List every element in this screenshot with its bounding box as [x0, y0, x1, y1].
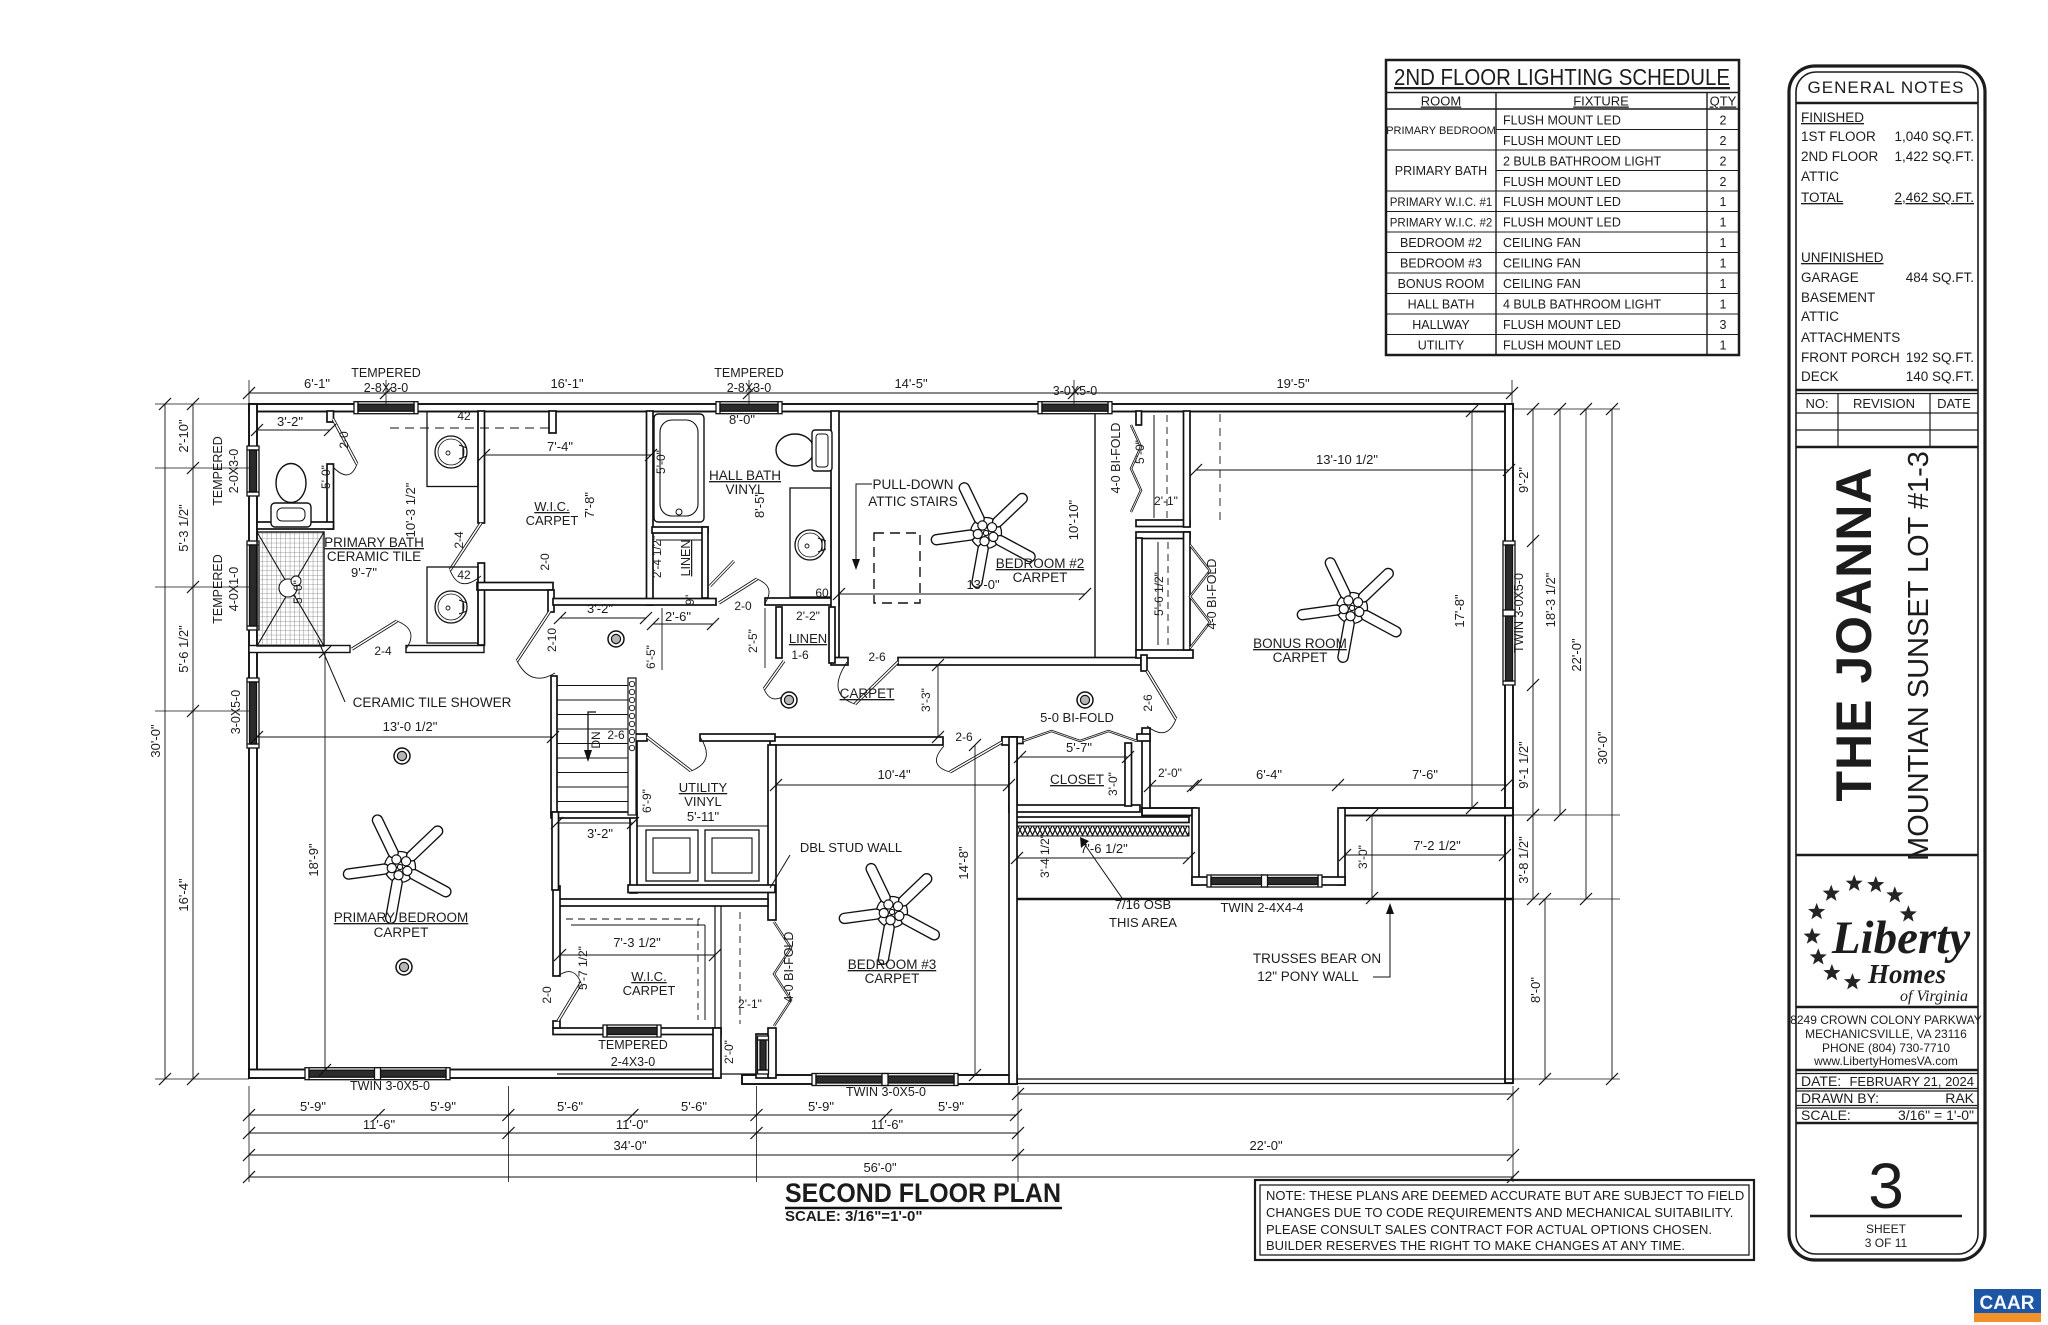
dim line 2-0 recess [1150, 785, 1193, 787]
svg-text:1ST FLOOR: 1ST FLOOR [1801, 129, 1876, 144]
svg-text:FLUSH MOUNT LED: FLUSH MOUNT LED [1503, 339, 1621, 353]
svg-text:3-0X5-0: 3-0X5-0 [229, 690, 243, 735]
svg-text:TRUSSES BEAR ON: TRUSSES BEAR ON [1253, 951, 1381, 966]
bonus room bottom wall west [1142, 808, 1196, 816]
svg-text:UTILITY: UTILITY [1418, 339, 1465, 353]
svg-text:2-10: 2-10 [545, 628, 559, 652]
toilet room bottom wall [257, 522, 334, 529]
svg-text:MOUNTIAN SUNSET LOT #1-3: MOUNTIAN SUNSET LOT #1-3 [1903, 451, 1935, 861]
bedroom3 east wall [1009, 737, 1017, 1084]
svg-text:10'-3 1/2": 10'-3 1/2" [403, 482, 418, 537]
svg-text:FLUSH MOUNT LED: FLUSH MOUNT LED [1503, 175, 1621, 189]
svg-text:TEMPERED: TEMPERED [598, 1038, 667, 1052]
flush light hall 3 [1077, 692, 1093, 708]
svg-text:22'-0": 22'-0" [1569, 638, 1584, 672]
svg-text:FINISHED: FINISHED [1801, 110, 1864, 125]
svg-text:8'-0": 8'-0" [1528, 977, 1543, 1003]
svg-text:3'-2": 3'-2" [587, 601, 613, 616]
dim line 13-10half [1196, 469, 1509, 471]
svg-text:BONUS ROOM: BONUS ROOM [1398, 277, 1485, 291]
window twin 3-0x5-0 bedroom3 [812, 1074, 958, 1086]
stair treads [557, 685, 628, 687]
date rows [1796, 1069, 1978, 1071]
svg-text:2-6: 2-6 [607, 728, 625, 742]
svg-text:FLUSH MOUNT LED: FLUSH MOUNT LED [1503, 216, 1621, 230]
svg-text:CARPET: CARPET [840, 686, 895, 701]
svg-text:5'-0": 5'-0" [291, 580, 305, 604]
svg-text:DATE: DATE [1937, 396, 1971, 411]
svg-text:5'-6": 5'-6" [681, 1099, 707, 1114]
window tempered 2-8x3-0 hallbath [716, 402, 782, 414]
svg-text:2'-0": 2'-0" [1158, 766, 1182, 780]
svg-text:6'-5": 6'-5" [644, 645, 658, 669]
svg-text:2-0: 2-0 [734, 599, 752, 613]
svg-text:2-0: 2-0 [337, 431, 351, 449]
svg-text:TOTAL: TOTAL [1801, 190, 1844, 205]
stair west wall [551, 676, 557, 815]
svg-text:5'-9": 5'-9" [430, 1099, 456, 1114]
svg-text:3'-2": 3'-2" [587, 826, 613, 841]
dim line 18-9 [324, 652, 326, 1070]
svg-text:3'-8 1/2": 3'-8 1/2" [1516, 836, 1531, 884]
svg-text:2'-6": 2'-6" [665, 609, 691, 624]
dim line 7-2half [1345, 854, 1505, 856]
bedroom2 south wall west stub [831, 658, 848, 666]
dim line 3-3 [937, 665, 939, 737]
left dimension chain [192, 404, 194, 1079]
svg-text:1: 1 [1720, 236, 1727, 250]
bonus closet bifold 4-0 [1190, 545, 1210, 648]
svg-text:FLUSH MOUNT LED: FLUSH MOUNT LED [1503, 114, 1621, 128]
right chain 9-2 [1532, 409, 1534, 815]
svg-text:ATTACHMENTS: ATTACHMENTS [1801, 330, 1900, 345]
wic2 shelf dashed top [566, 918, 700, 920]
wic south wall [553, 599, 716, 606]
svg-text:FLUSH MOUNT LED: FLUSH MOUNT LED [1503, 134, 1621, 148]
vanity wall return [548, 590, 554, 612]
right chain 8-0 [1544, 899, 1546, 1079]
bottom row4 chain [249, 1176, 1513, 1178]
svg-text:PRIMARY BATH: PRIMARY BATH [324, 535, 424, 550]
suite entry door 2-10 [517, 611, 555, 678]
svg-text:4 BULB BATHROOM LIGHT: 4 BULB BATHROOM LIGHT [1503, 298, 1661, 312]
linen closet 2 left wall [776, 607, 782, 658]
svg-text:DECK: DECK [1801, 369, 1839, 384]
wic east wall [647, 411, 654, 605]
table frame [1386, 60, 1739, 355]
svg-text:5'-7": 5'-7" [1066, 740, 1092, 755]
svg-text:1,422 SQ.FT.: 1,422 SQ.FT. [1894, 149, 1974, 164]
pony wall line [1017, 898, 1513, 900]
svg-text:NOTE: THESE PLANS ARE DEEMED A: NOTE: THESE PLANS ARE DEEMED ACCURATE BU… [1266, 1188, 1744, 1203]
svg-text:CEILING FAN: CEILING FAN [1503, 257, 1581, 271]
svg-text:5'-11": 5'-11" [687, 809, 720, 824]
svg-text:6'-9": 6'-9" [640, 789, 654, 813]
ceramic tile shower pan [257, 532, 324, 646]
dim line 7-4 [484, 454, 651, 456]
svg-text:RAK: RAK [1945, 1090, 1974, 1106]
bonus closet top wall [1136, 532, 1190, 539]
hall closet bottom wall [1009, 805, 1140, 812]
svg-text:VINYL: VINYL [725, 482, 765, 497]
svg-text:2-0X3-0: 2-0X3-0 [227, 449, 241, 494]
attic access dashed line [1219, 414, 1221, 520]
wic2 shelf solid right [704, 925, 706, 1020]
bay window left wall [1192, 808, 1199, 885]
dim line 6-5 vestibule [661, 608, 663, 670]
lower roof edge line a [1017, 1078, 1513, 1080]
svg-text:1: 1 [1720, 257, 1727, 271]
svg-text:SCALE: 3/16"=1'-0": SCALE: 3/16"=1'-0" [785, 1208, 922, 1225]
bedroom3 north wall east stub [1002, 737, 1017, 745]
right 18-3 [1559, 409, 1561, 815]
right chain 3-8 [1532, 815, 1534, 899]
bonus west wall lower [1142, 728, 1150, 808]
svg-text:SECOND FLOOR PLAN: SECOND FLOOR PLAN [785, 1178, 1061, 1208]
bottom row2 chain [249, 1132, 1018, 1134]
svg-text:5'-9": 5'-9" [808, 1099, 834, 1114]
column lines [1495, 93, 1497, 356]
svg-text:CARPET: CARPET [1013, 570, 1068, 585]
general notes header underline [1796, 102, 1978, 104]
svg-text:BASEMENT: BASEMENT [1801, 290, 1875, 305]
dim line 14-8 [974, 745, 976, 1075]
header dashed line wic [390, 427, 549, 429]
toilet 1 primary bath [271, 464, 311, 528]
dim line 3-2 toilet [257, 429, 330, 431]
svg-text:34'-0": 34'-0" [613, 1138, 647, 1153]
svg-text:2'-4 1/2": 2'-4 1/2" [652, 536, 664, 578]
svg-text:DRAWN BY:: DRAWN BY: [1801, 1090, 1879, 1106]
svg-text:2: 2 [1720, 155, 1727, 169]
bedroom2 closet shelf line [1153, 415, 1155, 518]
svg-text:3'-3": 3'-3" [919, 688, 933, 712]
svg-text:LINEN: LINEN [679, 540, 693, 577]
svg-text:5'-7 1/2": 5'-7 1/2" [576, 946, 590, 990]
ceiling fan primary bedroom [349, 820, 446, 918]
bottom wall - bedroom 3 [742, 1075, 1017, 1084]
flush light hall 1 [608, 631, 624, 647]
svg-text:TWIN 3-0X5-0: TWIN 3-0X5-0 [846, 1085, 926, 1099]
bonus west wall cap [1137, 734, 1150, 741]
wall segment with 2-0 window [756, 1034, 770, 1078]
svg-text:1: 1 [1720, 216, 1727, 230]
svg-text:HALL BATH: HALL BATH [1408, 298, 1475, 312]
svg-text:17'-8": 17'-8" [1452, 594, 1467, 628]
svg-text:SCALE:: SCALE: [1801, 1107, 1851, 1123]
svg-text:BEDROOM #2: BEDROOM #2 [1400, 236, 1482, 250]
window tempered 2-8x3-0 left [354, 402, 418, 414]
dim line 10-4 [776, 784, 1009, 786]
dim line 13-0 bedroom2 [839, 593, 1085, 595]
dim line 3-2 stairs [557, 822, 633, 824]
dim line 5-7 [1020, 756, 1128, 758]
linen closet 2 right wall [829, 607, 835, 663]
svg-text:PLEASE CONSULT SALES CONTRACT: PLEASE CONSULT SALES CONTRACT FOR ACTUAL… [1266, 1222, 1712, 1237]
svg-text:FLUSH MOUNT LED: FLUSH MOUNT LED [1503, 195, 1621, 209]
svg-text:14'-5": 14'-5" [894, 376, 928, 391]
bonus room door 2-6 [1147, 671, 1176, 733]
toilet room right wall lower [327, 464, 334, 529]
svg-text:TEMPERED: TEMPERED [211, 436, 225, 505]
svg-text:140 SQ.FT.: 140 SQ.FT. [1906, 369, 1974, 384]
bedroom3 closet wall line [714, 906, 716, 1028]
svg-text:2-4: 2-4 [452, 531, 466, 549]
svg-text:2ND FLOOR LIGHTING SCHEDULE: 2ND FLOOR LIGHTING SCHEDULE [1394, 64, 1730, 90]
shower leader [318, 640, 345, 702]
bath-wic door 2-4 [450, 523, 481, 584]
svg-text:4-0 BI-FOLD: 4-0 BI-FOLD [782, 932, 796, 1003]
svg-text:W.I.C.: W.I.C. [631, 969, 666, 984]
svg-text:8249 CROWN COLONY PARKWAY: 8249 CROWN COLONY PARKWAY [1790, 1013, 1982, 1027]
ceiling fan bedroom2 [936, 488, 1030, 582]
svg-text:30'-0": 30'-0" [1595, 731, 1610, 765]
svg-text:CARPET: CARPET [526, 513, 579, 528]
bonus closet bottom wall [1136, 650, 1193, 658]
bay window bottom wall [1192, 877, 1345, 885]
svg-text:3: 3 [1868, 1150, 1904, 1222]
bonus closet rod dashed [1167, 542, 1169, 645]
bath south wall east [406, 646, 484, 653]
svg-text:484 SQ.FT.: 484 SQ.FT. [1906, 270, 1974, 285]
flush light hall 2 [781, 692, 797, 708]
svg-text:9": 9" [685, 595, 697, 605]
svg-text:2-4: 2-4 [374, 644, 392, 658]
svg-text:60: 60 [815, 586, 829, 600]
svg-text:2 BULB BATHROOM LIGHT: 2 BULB BATHROOM LIGHT [1503, 155, 1661, 169]
bonus closet shelf line [1157, 542, 1159, 645]
primary bedroom door 2-0 [558, 972, 581, 1021]
svg-text:18'-9": 18'-9" [306, 843, 321, 877]
dim line 2-5 [764, 608, 766, 668]
wall notch below closet [1141, 655, 1147, 671]
bonus closet west wall [1136, 538, 1142, 650]
top ext lines [248, 380, 250, 404]
svg-text:CAAR: CAAR [1980, 1293, 2035, 1314]
svg-text:VINYL: VINYL [684, 794, 722, 809]
svg-text:CERAMIC TILE: CERAMIC TILE [327, 549, 421, 564]
bedroom3 closet wall line b [720, 906, 722, 1028]
linen closet 2 door 1-6 [764, 661, 784, 699]
bottom row1 chain [249, 1114, 1016, 1116]
svg-text:3'-2": 3'-2" [277, 414, 303, 429]
svg-text:5-0 BI-FOLD: 5-0 BI-FOLD [1040, 710, 1114, 725]
svg-text:2-6: 2-6 [1141, 694, 1155, 712]
utility shelf line [637, 825, 768, 827]
bath south wall west [249, 646, 350, 653]
utility west wall [630, 734, 637, 893]
svg-text:7'-6": 7'-6" [1412, 767, 1438, 782]
svg-text:ATTIC: ATTIC [1801, 169, 1839, 184]
svg-text:7'-2 1/2": 7'-2 1/2" [1413, 838, 1461, 853]
bedroom2 west wall [831, 411, 839, 661]
svg-text:6'-1": 6'-1" [304, 376, 330, 391]
svg-text:9'-1 1/2": 9'-1 1/2" [1516, 741, 1531, 789]
bedroom2 closet bifold 4-0 [1131, 425, 1141, 512]
DN arrow [588, 712, 596, 758]
closet east wall upper [1184, 411, 1191, 527]
svg-text:1: 1 [1720, 339, 1727, 353]
lower roof edge line b [1017, 1083, 1513, 1085]
bedroom2 closet top stub [1136, 411, 1142, 425]
svg-text:DBL STUD WALL: DBL STUD WALL [800, 840, 902, 855]
hall bath tub [654, 414, 704, 522]
window 2-0 at jog [758, 1036, 769, 1074]
top dimension chain [249, 392, 1512, 394]
utility door 2-6 [647, 737, 706, 771]
revision table [1796, 412, 1978, 414]
hall west wall below stairs [552, 812, 559, 890]
dim line below bonus [1196, 784, 1507, 786]
bonus room bottom wall east [1341, 808, 1513, 816]
svg-text:NO:: NO: [1805, 396, 1828, 411]
bedroom3 closet bifold 4-0 [774, 922, 791, 1026]
window tempered 2-4x3-0 wic2 [603, 1025, 661, 1037]
svg-text:1-6: 1-6 [791, 648, 809, 662]
svg-text:11'-6": 11'-6" [871, 1117, 904, 1132]
svg-text:16'-1": 16'-1" [550, 376, 584, 391]
svg-text:2'-2": 2'-2" [796, 609, 820, 623]
right 30-0 [1611, 409, 1613, 1079]
bedroom2 door 2-6 [838, 662, 898, 704]
wic2 shelf solid top [571, 924, 705, 926]
svg-text:REVISION: REVISION [1853, 396, 1915, 411]
dim extension line right section [1018, 1093, 1513, 1095]
svg-text:13'-10 1/2": 13'-10 1/2" [1316, 452, 1378, 467]
linen1 door leaf [710, 561, 734, 586]
svg-text:11'-6": 11'-6" [363, 1117, 396, 1132]
svg-text:UNFINISHED: UNFINISHED [1801, 250, 1884, 265]
svg-text:SHEET: SHEET [1866, 1222, 1907, 1236]
pulldown leader [856, 484, 872, 565]
window tempered 4-0x1-0 [247, 541, 259, 630]
svg-text:42: 42 [457, 568, 471, 582]
svg-text:10'-10": 10'-10" [1066, 499, 1081, 540]
wic2 west wall upper [553, 886, 560, 976]
dim line 7-6half [1017, 857, 1189, 859]
svg-text:Homes: Homes [1867, 959, 1946, 989]
svg-text:1: 1 [1720, 277, 1727, 291]
right ext lines [1513, 408, 1620, 410]
svg-text:5'-6 1/2": 5'-6 1/2" [176, 625, 191, 673]
svg-text:56'-0": 56'-0" [863, 1160, 897, 1175]
washer [646, 830, 698, 881]
svg-text:1,040 SQ.FT.: 1,040 SQ.FT. [1894, 129, 1974, 144]
svg-text:2'-0": 2'-0" [722, 1040, 736, 1064]
svg-text:2-4X3-0: 2-4X3-0 [611, 1055, 656, 1069]
dim line 7-3half [560, 954, 715, 956]
svg-text:PULL-DOWN: PULL-DOWN [872, 477, 953, 492]
svg-text:5'-0": 5'-0" [654, 450, 668, 474]
dbl stud leader [770, 855, 790, 888]
hall closet bifold 5-0 [1023, 731, 1137, 741]
svg-text:TWIN 2-4X4-4: TWIN 2-4X4-4 [1220, 900, 1303, 915]
wic2 bottom wall with window [553, 1028, 721, 1035]
hall closet east wall [1125, 743, 1132, 806]
utility north wall stub west [630, 734, 647, 741]
svg-text:16'-4": 16'-4" [176, 878, 191, 912]
bedroom3 door 2-6 [936, 742, 1002, 772]
osb leader [1083, 842, 1122, 898]
svg-text:3/16" = 1'-0": 3/16" = 1'-0" [1898, 1107, 1974, 1123]
svg-text:MECHANICSVILLE, VA 23116: MECHANICSVILLE, VA 23116 [1805, 1027, 1967, 1041]
liberty homes logo [1804, 875, 1971, 1005]
svg-text:9'-2": 9'-2" [1516, 467, 1531, 493]
bedroom3 north wall west [770, 737, 943, 745]
bedroom2 east wall [1094, 411, 1096, 658]
svg-text:PRIMARY W.I.C. #2: PRIMARY W.I.C. #2 [1390, 218, 1492, 230]
svg-text:2-8X3-0: 2-8X3-0 [364, 381, 409, 395]
hall bath south wall east [765, 598, 839, 605]
svg-text:5'-3 1/2": 5'-3 1/2" [176, 504, 191, 552]
dim line 2-6 vestibule [653, 623, 713, 625]
svg-text:18'-3 1/2": 18'-3 1/2" [1543, 572, 1558, 627]
linen closet 1 top wall [652, 527, 708, 533]
svg-text:7'-3 1/2": 7'-3 1/2" [613, 935, 661, 950]
svg-text:FIXTURE: FIXTURE [1573, 94, 1629, 109]
svg-text:8'-0": 8'-0" [729, 412, 755, 427]
wic2 west wall stub [553, 1021, 560, 1028]
svg-text:14'-8": 14'-8" [956, 846, 971, 880]
osb wall upper line [1010, 817, 1189, 823]
svg-text:FLUSH MOUNT LED: FLUSH MOUNT LED [1503, 318, 1621, 332]
svg-text:TWIN 3-0X5-0: TWIN 3-0X5-0 [350, 1079, 430, 1093]
svg-text:2-0: 2-0 [540, 986, 554, 1004]
svg-text:PRIMARY BEDROOM: PRIMARY BEDROOM [1386, 125, 1496, 137]
svg-text:HALLWAY: HALLWAY [1412, 318, 1470, 332]
vanity area wall [477, 583, 553, 591]
svg-text:2-6: 2-6 [955, 730, 973, 744]
svg-text:BEDROOM #3: BEDROOM #3 [848, 957, 937, 972]
svg-text:DN: DN [589, 731, 603, 748]
svg-text:THE JOANNA: THE JOANNA [1826, 466, 1882, 801]
svg-text:HALL BATH: HALL BATH [709, 468, 781, 483]
linen closet 1 shelf [656, 539, 702, 541]
svg-text:2-8X3-0: 2-8X3-0 [727, 381, 772, 395]
right 22-0 [1585, 409, 1587, 899]
header separators [1386, 92, 1739, 94]
exterior right wall [1505, 404, 1513, 1083]
flush light primary bedroom 2 [396, 959, 412, 975]
bath-wic wall upper [478, 411, 485, 523]
svg-text:7'-4": 7'-4" [547, 439, 573, 454]
exterior left wall [249, 404, 257, 1078]
primary bath vanity upper [427, 412, 478, 487]
svg-text:2'-1": 2'-1" [1154, 494, 1178, 508]
window twin 3-0x5-0 primary bedroom [305, 1068, 450, 1080]
svg-text:ATTIC: ATTIC [1801, 309, 1839, 324]
svg-text:4-0 BI-FOLD: 4-0 BI-FOLD [1109, 423, 1123, 494]
svg-text:FEBRUARY 21, 2024: FEBRUARY 21, 2024 [1849, 1074, 1974, 1089]
svg-text:1: 1 [1720, 195, 1727, 209]
dim line 13-0half [257, 736, 553, 738]
dim line 3-0 bay [1371, 815, 1373, 898]
svg-text:TEMPERED: TEMPERED [211, 554, 225, 623]
svg-text:of Virginia: of Virginia [1900, 988, 1968, 1005]
svg-text:LINEN: LINEN [789, 631, 827, 646]
svg-text:3 OF 11: 3 OF 11 [1865, 1236, 1908, 1250]
bedroom3 closet rod dashed [739, 912, 741, 1024]
svg-text:5'-0": 5'-0" [319, 465, 333, 489]
exterior bottom wall - primary bedroom [249, 1070, 719, 1079]
svg-text:CERAMIC TILE SHOWER: CERAMIC TILE SHOWER [353, 695, 512, 710]
svg-text:GARAGE: GARAGE [1801, 270, 1859, 285]
svg-text:7/16 OSB: 7/16 OSB [1115, 897, 1171, 912]
svg-text:ROOM: ROOM [1421, 94, 1461, 109]
svg-text:1: 1 [1720, 298, 1727, 312]
window 3-0x5-0 left wall [247, 678, 259, 748]
svg-text:5'-0": 5'-0" [1133, 440, 1147, 464]
